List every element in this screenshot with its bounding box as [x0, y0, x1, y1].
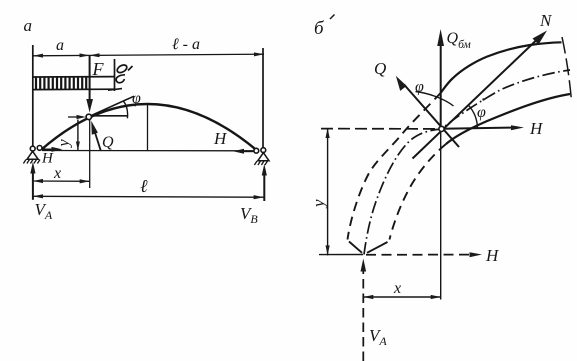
bottom point A dashed H arrow	[366, 254, 471, 256]
band inner edge dashed	[390, 144, 447, 240]
svg-text:VA: VA	[35, 200, 53, 222]
svg-text:φ: φ	[415, 79, 424, 96]
svg-text:H: H	[41, 151, 54, 167]
rotated load label loop	[116, 63, 128, 74]
chord line	[42, 150, 256, 152]
support A triangle	[27, 151, 38, 159]
extension line right (support B vertical)	[262, 48, 264, 148]
svg-text:x: x	[393, 280, 401, 297]
arch curve	[42, 104, 258, 151]
svg-text:Q: Q	[374, 59, 386, 78]
phi arc between Q and N over vertical	[416, 92, 454, 107]
dimension line a / l-a	[33, 54, 264, 56]
svg-text:а: а	[24, 16, 33, 35]
band inner edge solid	[446, 94, 570, 144]
section cut line at band end	[562, 37, 572, 101]
support A circles	[30, 146, 35, 151]
svg-text:H: H	[213, 129, 228, 148]
svg-text:б: б	[314, 18, 325, 39]
leader arrow into hinge from left	[68, 116, 80, 118]
svg-text:у: у	[56, 139, 73, 149]
distributed load band bottom edge	[33, 88, 115, 90]
N arrow	[413, 41, 537, 159]
load height dim line	[114, 59, 116, 91]
svg-text:ℓ: ℓ	[140, 176, 148, 196]
y dimension vertical fig a	[77, 120, 79, 151]
phi arc between N and H	[468, 105, 477, 129]
load hatching	[36, 77, 86, 90]
band outer edge solid	[441, 42, 562, 92]
section point circle	[439, 126, 444, 131]
svg-text:Qбм: Qбм	[447, 30, 472, 51]
svg-text:VB: VB	[240, 204, 258, 226]
H arrow at support B	[242, 150, 254, 152]
y dimension vertical fig b	[327, 128, 329, 255]
rotated load label hook	[116, 75, 125, 83]
H arrow fig b center	[442, 128, 512, 129]
x dimension fig b	[363, 296, 440, 298]
band outer edge dashed	[348, 93, 442, 240]
hinge circle	[86, 114, 91, 119]
svg-text:H: H	[485, 246, 500, 265]
Q arrow fig b	[404, 85, 459, 148]
phi arc fig a	[124, 101, 128, 118]
svg-text:F: F	[92, 59, 105, 79]
tick after b	[330, 15, 335, 20]
svg-text:φ: φ	[132, 90, 141, 107]
force F arrow	[89, 56, 91, 103]
bottom extension line at A	[319, 254, 363, 256]
dim arrows at F line	[80, 53, 90, 57]
dim arrow right end	[254, 52, 264, 56]
band centerline dash-dot	[364, 70, 570, 255]
x extension line below hinge	[89, 120, 91, 189]
horizontal reference at hinge	[92, 115, 129, 117]
svg-text:Q: Q	[102, 134, 114, 151]
reaction VB arrow	[263, 174, 265, 201]
crown vertical	[147, 105, 149, 151]
support B triangle	[258, 153, 269, 161]
dashed horizontal through section	[321, 128, 440, 130]
section vertical line below	[440, 131, 442, 300]
svg-text:x: x	[53, 165, 61, 182]
reaction VA arrow	[32, 172, 34, 200]
tangent line at hinge	[91, 96, 135, 116]
distributed load band top edge	[33, 76, 115, 78]
support B hatching	[254, 161, 267, 165]
extension line left (support A vertical)	[32, 45, 34, 147]
svg-text:у: у	[309, 199, 328, 209]
VA dashed arrow fig b	[362, 270, 364, 361]
svg-text:N: N	[539, 11, 553, 30]
svg-text:a: a	[56, 37, 64, 54]
svg-text:VA: VA	[369, 326, 387, 348]
dim arrow left end	[33, 54, 43, 58]
x dimension line fig a	[33, 180, 90, 182]
force Q arrow fig a	[95, 131, 101, 151]
svg-text:φ: φ	[477, 104, 486, 121]
svg-text:H: H	[529, 119, 544, 138]
l dimension line fig a	[33, 195, 264, 198]
support A hatching	[23, 160, 40, 164]
support B circles	[254, 148, 259, 153]
svg-text:ℓ - a: ℓ - a	[172, 36, 200, 53]
Qbm arrow	[440, 44, 442, 128]
H arrow at support A	[43, 148, 55, 150]
